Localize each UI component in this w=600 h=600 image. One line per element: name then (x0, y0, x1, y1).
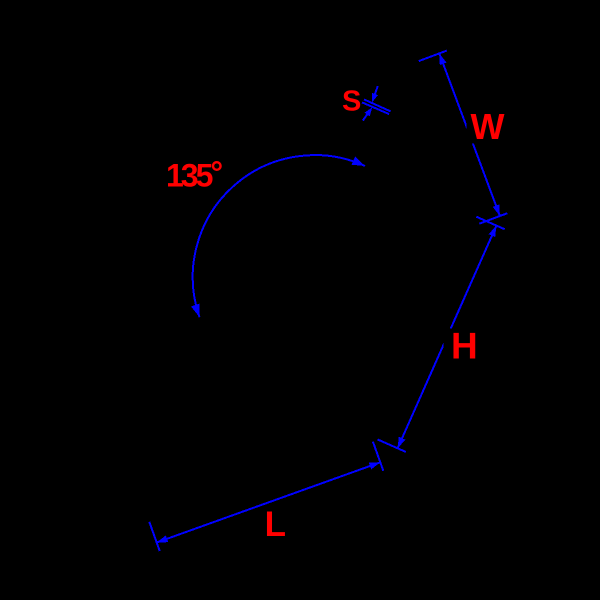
svg-text:L: L (265, 505, 286, 544)
svg-text:W: W (471, 106, 505, 147)
svg-text:135°: 135° (166, 155, 222, 194)
svg-text:H: H (451, 325, 478, 366)
svg-text:S: S (342, 86, 361, 118)
